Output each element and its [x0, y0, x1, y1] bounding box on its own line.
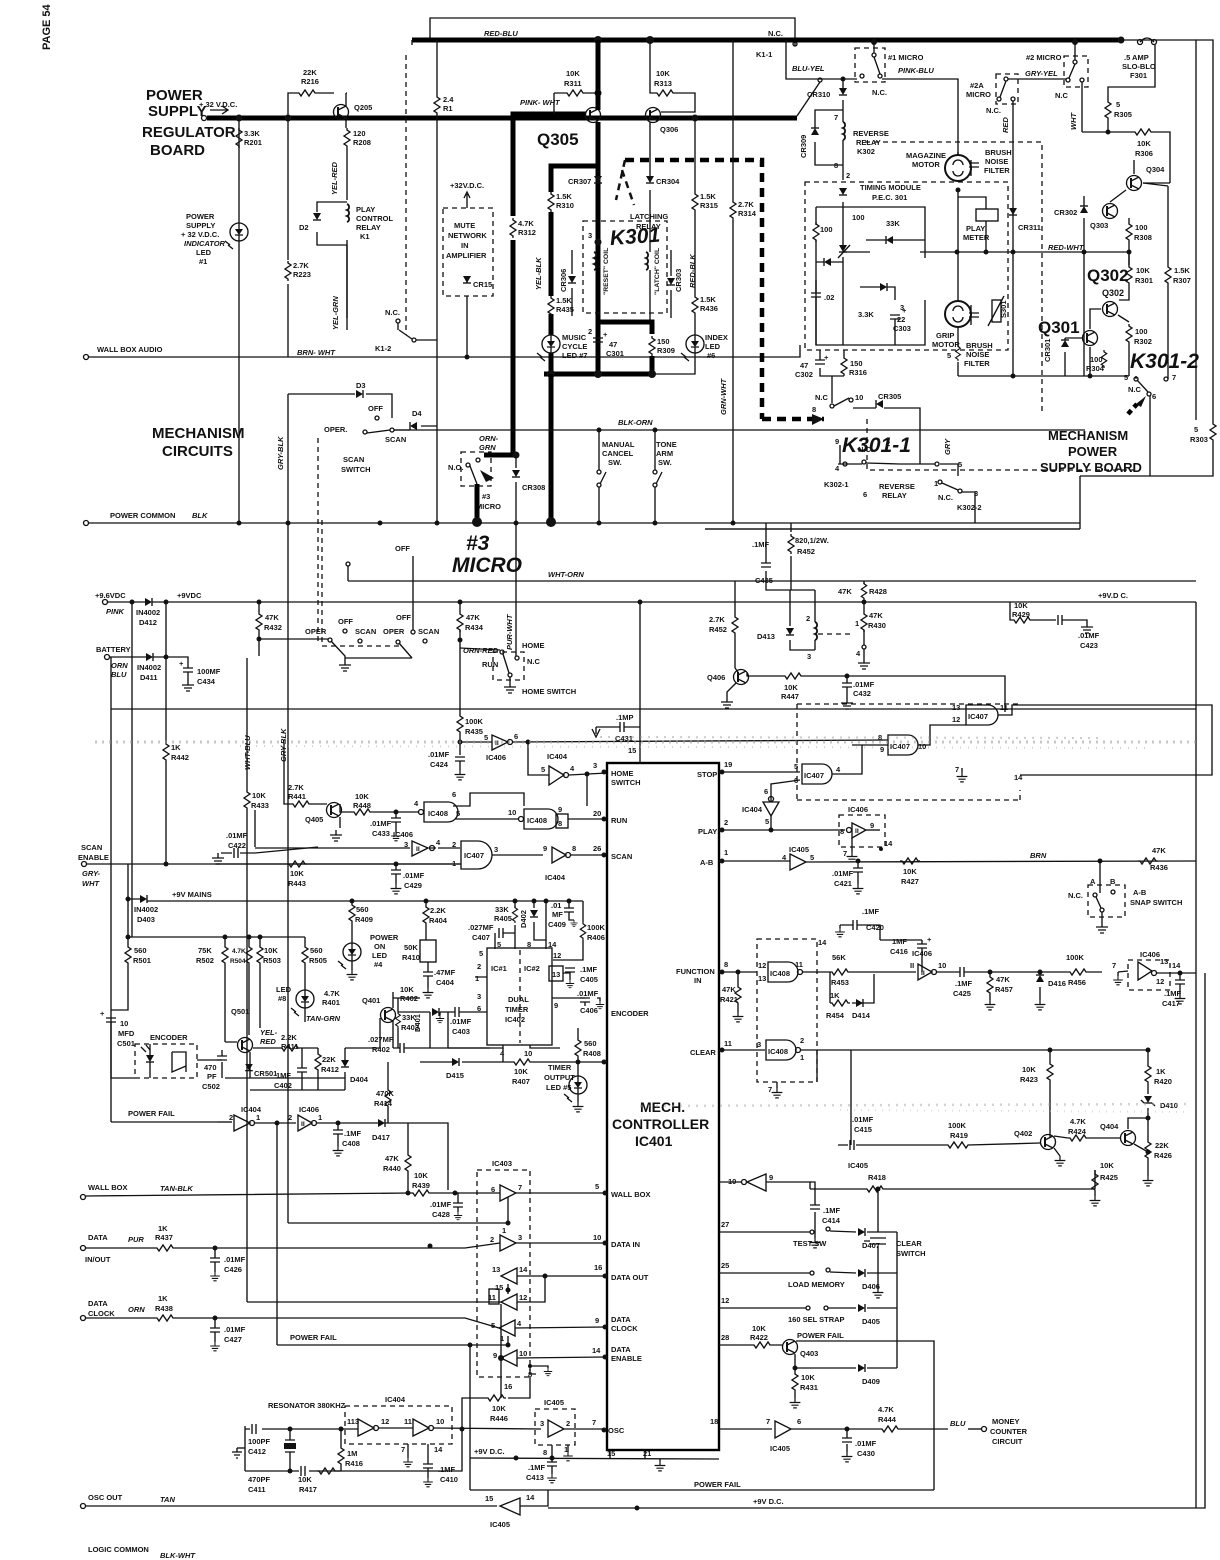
- svg-text:.1MF: .1MF: [1164, 989, 1182, 998]
- gate IC404 home row: [528, 742, 549, 775]
- svg-text:SCAN: SCAN: [81, 843, 102, 852]
- svg-text:R439: R439: [412, 1181, 430, 1190]
- svg-text:27: 27: [721, 1220, 729, 1229]
- svg-text:IC407: IC407: [464, 851, 484, 860]
- svg-text:10: 10: [524, 1049, 532, 1058]
- svg-text:MICRO: MICRO: [452, 554, 522, 577]
- svg-text:10K: 10K: [514, 1067, 528, 1076]
- svg-text:IC404: IC404: [545, 873, 566, 882]
- svg-text:ENCODER: ENCODER: [611, 1009, 649, 1018]
- svg-text:6: 6: [452, 790, 456, 799]
- svg-text:22K: 22K: [1155, 1141, 1169, 1150]
- svg-text:DATA: DATA: [611, 1345, 631, 1354]
- svg-text:CLEAR: CLEAR: [690, 1048, 716, 1057]
- svg-text:11: 11: [724, 1039, 732, 1048]
- svg-text:C502: C502: [202, 1082, 220, 1091]
- svg-text:1: 1: [934, 479, 938, 488]
- svg-text:3: 3: [807, 652, 811, 661]
- resistor R208: [344, 128, 350, 148]
- resistor R436: [692, 295, 698, 315]
- svg-text:9: 9: [769, 1173, 773, 1182]
- svg-text:470K: 470K: [376, 1089, 395, 1098]
- svg-text:IC404: IC404: [385, 1395, 406, 1404]
- switch #2A MICRO: [996, 74, 1018, 104]
- svg-text:2: 2: [800, 1036, 804, 1045]
- transistor Q306: [646, 108, 661, 123]
- svg-text:19: 19: [724, 760, 732, 769]
- resistor R424: [1068, 1135, 1088, 1141]
- node +32VDC input: [202, 116, 207, 121]
- svg-text:LED #5: LED #5: [546, 1083, 571, 1092]
- transistor Q205: [334, 105, 349, 120]
- svg-text:AMPLIFIER: AMPLIFIER: [446, 251, 487, 260]
- blk-orn row: [394, 429, 1085, 431]
- right rail: [1150, 40, 1213, 476]
- svg-text:560: 560: [584, 1039, 597, 1048]
- svg-text:ORN-RED: ORN-RED: [463, 646, 499, 655]
- svg-text:820,1/2W.: 820,1/2W.: [795, 536, 829, 545]
- svg-text:POWER: POWER: [370, 933, 399, 942]
- svg-text:R427: R427: [901, 877, 919, 886]
- svg-text:LOGIC COMMON: LOGIC COMMON: [88, 1545, 149, 1554]
- resistor R501: [111, 937, 128, 1010]
- mains sub-bus: [128, 899, 305, 937]
- svg-text:C411: C411: [248, 1485, 266, 1494]
- capacitor C430: [846, 1429, 848, 1452]
- svg-text:12: 12: [519, 1293, 527, 1302]
- relay K1 dashed linkage: [405, 55, 407, 335]
- resistor R429: [1010, 602, 1056, 620]
- svg-text:SWITCH: SWITCH: [341, 465, 371, 474]
- svg-text:ARM: ARM: [656, 449, 673, 458]
- svg-text:CR310: CR310: [807, 90, 830, 99]
- svg-text:D402: D402: [519, 910, 528, 928]
- svg-text:MUSIC: MUSIC: [562, 333, 587, 342]
- svg-text:14: 14: [818, 938, 827, 947]
- svg-text:COUNTER: COUNTER: [990, 1427, 1028, 1436]
- svg-text:4: 4: [570, 764, 575, 773]
- svg-text:1: 1: [855, 619, 859, 628]
- resistor R427: [900, 858, 920, 864]
- diode D3: [288, 394, 392, 418]
- svg-text:D414: D414: [852, 1011, 871, 1020]
- svg-text:IC403: IC403: [492, 1159, 512, 1168]
- svg-text:D2: D2: [299, 223, 309, 232]
- fuse F301: [1138, 40, 1143, 45]
- svg-text:R424: R424: [1068, 1127, 1087, 1136]
- svg-text:25: 25: [721, 1261, 729, 1270]
- resistor R406: [553, 901, 583, 960]
- svg-text:N.C.: N.C.: [938, 493, 953, 502]
- svg-text:6: 6: [491, 1185, 495, 1194]
- svg-text:2: 2: [229, 1113, 233, 1122]
- svg-text:D403: D403: [137, 915, 155, 924]
- diode D412: [108, 601, 145, 603]
- LED #4 power on: [338, 943, 361, 969]
- wire fuse to R305: [1108, 45, 1155, 100]
- svg-text:14: 14: [1014, 773, 1023, 782]
- svg-text:CR308: CR308: [522, 483, 545, 492]
- svg-text:R441: R441: [288, 792, 306, 801]
- svg-text:D401: D401: [413, 1014, 422, 1032]
- svg-text:47K: 47K: [869, 611, 883, 620]
- svg-text:26: 26: [593, 844, 601, 853]
- svg-text:SCAN: SCAN: [418, 627, 439, 636]
- capacitor C404: [423, 972, 433, 976]
- svg-text:C402: C402: [274, 1081, 292, 1090]
- svg-text:.01MF: .01MF: [832, 869, 854, 878]
- svg-text:IC406: IC406: [912, 949, 932, 958]
- svg-text:OPER.: OPER.: [324, 425, 347, 434]
- transistor Q303: [1103, 204, 1118, 219]
- resistor R408: [577, 1028, 579, 1076]
- svg-text:IC406: IC406: [486, 753, 506, 762]
- svg-text:NETWORK: NETWORK: [448, 231, 487, 240]
- resistor R412: [317, 1048, 319, 1090]
- svg-text:22K: 22K: [303, 68, 317, 77]
- svg-text:YEL-: YEL-: [260, 1028, 278, 1037]
- svg-text:9: 9: [595, 1316, 599, 1325]
- resistor R303: [1210, 422, 1216, 442]
- svg-text:Q403: Q403: [800, 1349, 818, 1358]
- svg-text:R436: R436: [700, 304, 718, 313]
- resistor R402 vertical: [425, 899, 427, 940]
- wire scan enable: [87, 863, 460, 865]
- svg-text:IC404: IC404: [547, 752, 568, 761]
- svg-text:R419: R419: [950, 1131, 968, 1140]
- mech power supply board dashed boundary: [865, 142, 1042, 415]
- svg-text:2: 2: [886, 439, 890, 448]
- svg-text:R447: R447: [781, 692, 799, 701]
- diode D404: [344, 1048, 346, 1090]
- svg-text:5: 5: [1124, 373, 1128, 382]
- svg-text:R440: R440: [383, 1164, 401, 1173]
- svg-text:Q501: Q501: [231, 1007, 249, 1016]
- svg-text:"RESET" COIL: "RESET" COIL: [603, 248, 610, 295]
- svg-text:.1MF: .1MF: [580, 965, 598, 974]
- svg-text:.1MF: .1MF: [752, 540, 770, 549]
- latch coil: [646, 252, 648, 270]
- transistor Q405: [327, 803, 342, 818]
- svg-text:R307: R307: [1173, 276, 1191, 285]
- switch #1 MICRO: [855, 48, 885, 82]
- capacitor C402: [297, 1068, 307, 1072]
- svg-text:10: 10: [938, 961, 946, 970]
- svg-text:C424: C424: [430, 760, 449, 769]
- gate IC408 #2: [519, 817, 524, 822]
- svg-text:R1: R1: [443, 104, 453, 113]
- svg-text:ENABLE: ENABLE: [78, 853, 109, 862]
- svg-text:R406: R406: [587, 933, 605, 942]
- svg-text:C410: C410: [440, 1475, 458, 1484]
- resistor R428: [863, 581, 865, 602]
- svg-text:150: 150: [657, 337, 670, 346]
- resistor R426: [1147, 1138, 1149, 1176]
- svg-text:+32V.D.C.: +32V.D.C.: [450, 181, 484, 190]
- svg-text:A-B: A-B: [700, 858, 714, 867]
- svg-text:IC405: IC405: [544, 1398, 564, 1407]
- svg-text:R404: R404: [429, 916, 448, 925]
- svg-text:CR304: CR304: [656, 177, 680, 186]
- svg-text:HOME: HOME: [611, 769, 634, 778]
- resistor R402b: [393, 998, 420, 1012]
- svg-text:K302-1: K302-1: [824, 480, 849, 489]
- transistor Q406: [734, 670, 749, 685]
- resistor R443: [287, 861, 307, 867]
- latching relay outer dashed: [625, 160, 824, 419]
- svg-text:REVERSE: REVERSE: [879, 482, 915, 491]
- resistor R401: [351, 899, 353, 940]
- resistor R452 820: [788, 534, 794, 554]
- svg-text:CR306: CR306: [559, 269, 568, 292]
- svg-text:PLAY: PLAY: [356, 205, 375, 214]
- svg-text:CONTROLLER: CONTROLLER: [612, 1116, 709, 1132]
- svg-text:3: 3: [593, 761, 597, 770]
- svg-text:21: 21: [643, 1449, 651, 1458]
- svg-text:#8: #8: [278, 994, 286, 1003]
- svg-text:ENABLE: ENABLE: [611, 1354, 642, 1363]
- svg-text:+: +: [179, 659, 184, 668]
- svg-text:POWER FAIL: POWER FAIL: [290, 1333, 337, 1342]
- grip motor: [945, 301, 971, 327]
- svg-text:8: 8: [812, 405, 816, 414]
- svg-text:1: 1: [318, 1113, 322, 1122]
- wire long y709: [111, 708, 1196, 710]
- wire to IC407: [847, 676, 1005, 712]
- svg-text:INDICATOR: INDICATOR: [184, 239, 226, 248]
- svg-text:CYCLE: CYCLE: [562, 342, 587, 351]
- svg-text:.1MF: .1MF: [344, 1129, 362, 1138]
- cap C405: [565, 968, 575, 972]
- svg-text:9: 9: [880, 745, 884, 754]
- svg-text:R442: R442: [171, 753, 189, 762]
- svg-text:7: 7: [834, 113, 838, 122]
- svg-text:100MF: 100MF: [197, 667, 221, 676]
- scanner noise band 2: [640, 1104, 1190, 1106]
- svg-text:ORN: ORN: [111, 661, 128, 670]
- svg-text:6: 6: [514, 732, 518, 741]
- svg-text:R414: R414: [374, 1099, 393, 1108]
- svg-text:DATA: DATA: [611, 1315, 631, 1324]
- resistor R435: [548, 296, 554, 316]
- resistor R416: [340, 1429, 342, 1471]
- thick emitter branch: [551, 166, 598, 374]
- svg-text:R503: R503: [263, 956, 281, 965]
- LED #1: [225, 223, 248, 249]
- svg-text:13: 13: [952, 703, 960, 712]
- svg-text:1K: 1K: [1156, 1067, 1166, 1076]
- svg-text:3: 3: [540, 1419, 544, 1428]
- svg-text:WALL BOX: WALL BOX: [611, 1190, 650, 1199]
- svg-text:.01MF: .01MF: [853, 680, 875, 689]
- scan switch dashed box: [317, 438, 319, 645]
- svg-text:R431: R431: [800, 1383, 818, 1392]
- svg-text:1.5K: 1.5K: [556, 296, 572, 305]
- A-B row pin1: [720, 859, 725, 864]
- svg-text:6: 6: [797, 1417, 801, 1426]
- svg-text:#1: #1: [199, 257, 207, 266]
- stop row pin19: [720, 770, 725, 775]
- svg-text:IN/OUT: IN/OUT: [85, 1255, 111, 1264]
- clear row pin11: [720, 1048, 725, 1053]
- wire V x132: [131, 602, 133, 937]
- svg-text:R446: R446: [490, 1414, 508, 1423]
- svg-text:ON: ON: [374, 942, 385, 951]
- svg-text:LED: LED: [276, 985, 292, 994]
- svg-text:113: 113: [347, 1417, 359, 1426]
- svg-text:6: 6: [863, 490, 867, 499]
- transistor Q305: [586, 108, 601, 123]
- svg-text:B: B: [1110, 877, 1116, 886]
- thick down to power common: [549, 374, 554, 521]
- resistor R312: [510, 218, 516, 238]
- svg-text:ORN: ORN: [128, 1305, 145, 1314]
- svg-text:C434: C434: [197, 677, 216, 686]
- switch OPER/OFF/SCAN 1: [257, 637, 262, 642]
- wire R1 line: [436, 40, 438, 523]
- diode CR306: [571, 250, 573, 316]
- function in row pin8: [720, 970, 725, 975]
- svg-text:IC406: IC406: [1140, 950, 1160, 959]
- gnd left: [237, 1447, 245, 1449]
- svg-text:R309: R309: [657, 346, 675, 355]
- svg-text:1MF: 1MF: [892, 937, 907, 946]
- svg-text:12: 12: [381, 1417, 389, 1426]
- svg-text:IC406: IC406: [848, 805, 868, 814]
- svg-text:RUN: RUN: [482, 660, 498, 669]
- svg-text:IC#2: IC#2: [524, 964, 540, 973]
- svg-text:WALL BOX: WALL BOX: [88, 1183, 127, 1192]
- resistor R302: [1126, 324, 1132, 344]
- svg-text:C423: C423: [1080, 641, 1098, 650]
- svg-text:4.7K: 4.7K: [232, 948, 246, 955]
- diode CR308: [515, 455, 517, 656]
- resistor R435: [457, 714, 463, 734]
- svg-text:C408: C408: [342, 1139, 360, 1148]
- svg-text:GRY-YEL: GRY-YEL: [1025, 69, 1058, 78]
- svg-text:Q304: Q304: [1146, 165, 1165, 174]
- svg-text:R448: R448: [353, 801, 371, 810]
- resistor R414: [387, 1062, 389, 1088]
- svg-text:Q302: Q302: [1087, 266, 1129, 285]
- resistor R419: [945, 1142, 1040, 1148]
- svg-text:10K: 10K: [400, 985, 414, 994]
- svg-text:OSC: OSC: [608, 1426, 625, 1435]
- svg-text:II: II: [855, 828, 859, 835]
- svg-text:C403: C403: [452, 1027, 470, 1036]
- svg-text:5: 5: [794, 762, 798, 771]
- wire +32V bus PINK-WHT (thick): [207, 116, 797, 121]
- svg-text:S301: S301: [999, 300, 1008, 318]
- diode CR304: [646, 176, 654, 183]
- svg-text:9: 9: [493, 1351, 497, 1360]
- svg-text:4: 4: [436, 838, 441, 847]
- svg-text:1: 1: [724, 848, 728, 857]
- svg-text:47K: 47K: [838, 587, 852, 596]
- resistor R311: [554, 92, 598, 94]
- svg-text:R306: R306: [1135, 149, 1153, 158]
- svg-text:1.5K: 1.5K: [556, 192, 572, 201]
- diode D415: [452, 1058, 459, 1066]
- svg-text:R456: R456: [1068, 978, 1086, 987]
- svg-text:+ 32 V.D.C.: + 32 V.D.C.: [181, 230, 219, 239]
- svg-text:R454: R454: [826, 1011, 845, 1020]
- svg-text:+9V MAINS: +9V MAINS: [172, 890, 212, 899]
- svg-text:10K: 10K: [1137, 139, 1151, 148]
- capacitor C433: [394, 810, 399, 815]
- resistor R457: [989, 972, 991, 1000]
- scanner noise band 1: [95, 741, 1200, 744]
- svg-text:R457: R457: [995, 985, 1013, 994]
- svg-text:MAGAZINE: MAGAZINE: [906, 151, 946, 160]
- svg-text:R402: R402: [372, 1045, 390, 1054]
- svg-text:D405: D405: [862, 1317, 880, 1326]
- svg-text:R409: R409: [355, 915, 373, 924]
- svg-text:CANCEL: CANCEL: [602, 449, 634, 458]
- svg-text:IC405: IC405: [848, 1161, 868, 1170]
- svg-text:OFF: OFF: [338, 617, 353, 626]
- svg-text:PLAY: PLAY: [966, 224, 985, 233]
- svg-text:12: 12: [1156, 977, 1164, 986]
- svg-text:10: 10: [519, 1349, 527, 1358]
- svg-text:N.C.: N.C.: [385, 308, 400, 317]
- svg-text:YEL-GRN: YEL-GRN: [331, 296, 340, 330]
- svg-text:WALL BOX AUDIO: WALL BOX AUDIO: [97, 345, 163, 354]
- svg-text:D407: D407: [862, 1241, 880, 1250]
- svg-text:POWER FAIL: POWER FAIL: [694, 1480, 741, 1489]
- svg-text:A-B: A-B: [1133, 888, 1147, 897]
- wire V x239: [238, 118, 240, 523]
- svg-text:C413: C413: [526, 1473, 544, 1482]
- svg-text:.5 AMP: .5 AMP: [1124, 53, 1149, 62]
- svg-text:BLK-WHT: BLK-WHT: [160, 1551, 196, 1560]
- svg-text:GRIP: GRIP: [936, 331, 954, 340]
- svg-text:PINK- WHT: PINK- WHT: [520, 98, 561, 107]
- svg-text:50K: 50K: [404, 943, 418, 952]
- thick latch bottom: [598, 322, 652, 374]
- svg-text:N.C.: N.C.: [768, 29, 783, 38]
- svg-text:7: 7: [518, 1183, 522, 1192]
- svg-text:3: 3: [518, 1233, 522, 1242]
- svg-text:CR303: CR303: [674, 269, 683, 292]
- svg-text:10K: 10K: [566, 69, 580, 78]
- svg-text:C414: C414: [822, 1216, 841, 1225]
- svg-text:IC408: IC408: [768, 1047, 788, 1056]
- svg-text:PLAY: PLAY: [698, 827, 717, 836]
- diode (low left): [824, 258, 831, 266]
- timing inner box: [816, 207, 925, 345]
- resistor R216: [297, 90, 317, 96]
- svg-text:4: 4: [856, 649, 861, 658]
- wire down to switch 8: [831, 376, 833, 403]
- svg-text:RED-BLU: RED-BLU: [484, 29, 518, 38]
- wire x640 pin15: [639, 602, 641, 763]
- brush noise filter 2: [969, 313, 979, 317]
- wire YEL-RED: [346, 148, 348, 330]
- svg-text:GRN: GRN: [479, 443, 496, 452]
- svg-text:C431: C431: [615, 734, 633, 743]
- LED index #6: [681, 335, 704, 361]
- svg-text:7: 7: [1112, 961, 1116, 970]
- svg-text:OFF: OFF: [395, 544, 410, 553]
- svg-text:R421: R421: [720, 995, 738, 1004]
- svg-text:TEST SW: TEST SW: [793, 1239, 827, 1248]
- svg-text:CIRCUITS: CIRCUITS: [162, 443, 233, 460]
- resistor R446: [462, 1377, 530, 1429]
- svg-text:C421: C421: [834, 879, 852, 888]
- svg-text:4: 4: [835, 464, 840, 473]
- svg-text:4: 4: [836, 765, 841, 774]
